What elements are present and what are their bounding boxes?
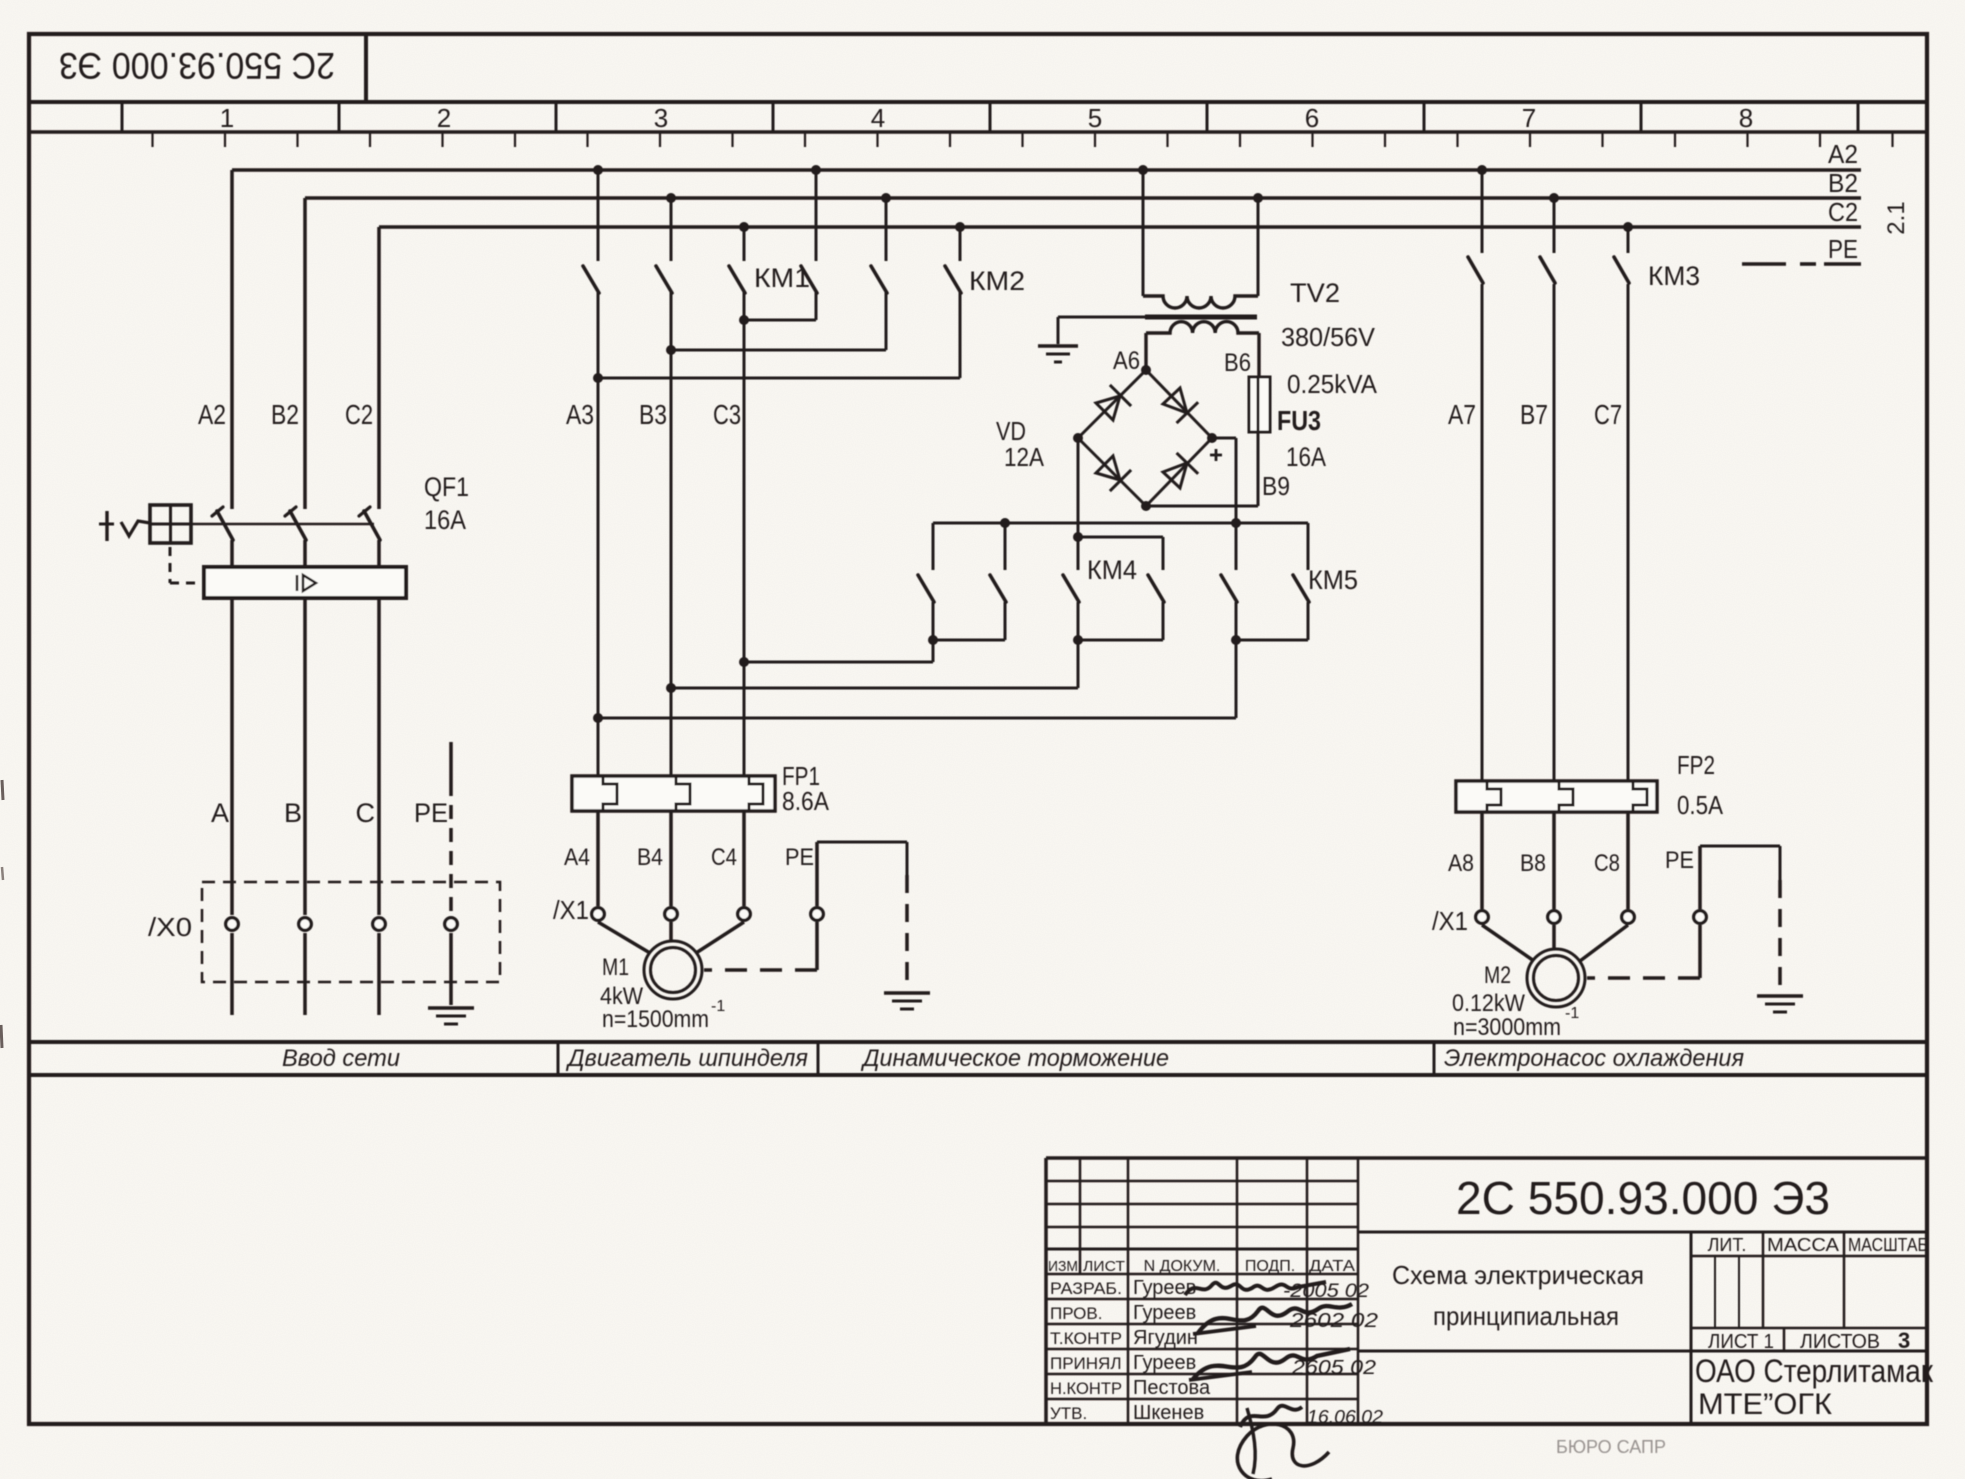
svg-text:А: А	[211, 798, 229, 828]
svg-text:3: 3	[1898, 1328, 1910, 1353]
svg-text:2С 550.93.000 Э3: 2С 550.93.000 Э3	[59, 45, 335, 86]
svg-text:ПРОВ.: ПРОВ.	[1050, 1304, 1102, 1323]
svg-text:1: 1	[220, 103, 234, 133]
svg-text:С7: С7	[1594, 399, 1622, 430]
svg-text:КМ2: КМ2	[969, 266, 1025, 296]
svg-text:В9: В9	[1262, 471, 1290, 501]
svg-text:МАССА: МАССА	[1767, 1235, 1839, 1255]
svg-text:ОАО Стерлитамак: ОАО Стерлитамак	[1695, 1353, 1934, 1389]
svg-text:В8: В8	[1520, 850, 1546, 877]
svg-text:КМ1: КМ1	[754, 263, 810, 293]
svg-text:А7: А7	[1448, 399, 1476, 430]
svg-text:Ввод сети: Ввод сети	[282, 1045, 400, 1072]
svg-text:Т.КОНТР: Т.КОНТР	[1050, 1329, 1122, 1348]
svg-text:Шкенев: Шкенев	[1133, 1402, 1204, 1424]
svg-text:6: 6	[1305, 103, 1319, 133]
svg-text:А2: А2	[198, 399, 226, 430]
svg-text:МТЕ”ОГК: МТЕ”ОГК	[1698, 1388, 1833, 1421]
svg-text:12А: 12А	[1004, 442, 1045, 472]
svg-text:8: 8	[1739, 103, 1753, 133]
svg-text:2С 550.93.000 Э3: 2С 550.93.000 Э3	[1456, 1172, 1830, 1224]
svg-text:С: С	[356, 798, 376, 828]
svg-text:ЛИСТ 1: ЛИСТ 1	[1708, 1331, 1774, 1353]
svg-text:/X1: /X1	[1432, 906, 1468, 936]
svg-text:ПОДП.: ПОДП.	[1245, 1258, 1295, 1275]
svg-text:2605 02: 2605 02	[1291, 1357, 1376, 1379]
svg-text:В6: В6	[1224, 349, 1251, 377]
svg-text:РЕ: РЕ	[1665, 847, 1694, 874]
svg-text:2.1: 2.1	[1883, 201, 1910, 234]
svg-text:В: В	[284, 798, 302, 828]
svg-text:0.25kVA: 0.25kVA	[1287, 369, 1378, 399]
svg-text:В3: В3	[639, 399, 667, 430]
svg-text:Гуреев: Гуреев	[1133, 1302, 1196, 1324]
svg-text:-2005 02: -2005 02	[1283, 1281, 1369, 1302]
svg-text:РЕ: РЕ	[785, 844, 814, 871]
svg-text:ТV2: ТV2	[1290, 278, 1340, 308]
svg-text:Электронасос охлаждения: Электронасос охлаждения	[1444, 1045, 1744, 1072]
svg-text:КМ5: КМ5	[1308, 565, 1358, 595]
svg-text:КМ3: КМ3	[1648, 261, 1700, 291]
svg-text:380/56V: 380/56V	[1281, 322, 1376, 352]
svg-text:ДАТА: ДАТА	[1309, 1258, 1355, 1275]
svg-text:С8: С8	[1594, 850, 1620, 877]
svg-text:принципиальная: принципиальная	[1433, 1301, 1619, 1331]
svg-text:Двигатель шпинделя: Двигатель шпинделя	[565, 1045, 808, 1072]
svg-text:0.5А: 0.5А	[1677, 790, 1724, 820]
svg-text:5: 5	[1088, 103, 1102, 133]
svg-text:А3: А3	[566, 399, 594, 430]
svg-text:МАСШТАБ: МАСШТАБ	[1848, 1235, 1928, 1255]
svg-text:/X0: /X0	[148, 912, 192, 942]
svg-text:РЕ: РЕ	[1828, 234, 1858, 264]
svg-text:А8: А8	[1448, 850, 1474, 877]
svg-text:/X1: /X1	[553, 895, 589, 925]
svg-text:3: 3	[654, 103, 668, 133]
svg-text:FP2: FP2	[1677, 750, 1715, 780]
svg-text:А2: А2	[1828, 139, 1858, 169]
svg-text:Н.КОНТР: Н.КОНТР	[1050, 1379, 1122, 1398]
svg-text:ИЗМ: ИЗМ	[1048, 1258, 1078, 1275]
svg-text:8.6А: 8.6А	[782, 786, 830, 816]
svg-text:РЕ: РЕ	[414, 798, 448, 828]
svg-text:0.12kW: 0.12kW	[1452, 990, 1525, 1017]
svg-text:-1: -1	[1565, 1005, 1579, 1022]
svg-text:Динамическое торможение: Динамическое торможение	[860, 1045, 1169, 1072]
svg-text:М2: М2	[1484, 962, 1511, 989]
svg-text:-1: -1	[711, 998, 725, 1015]
svg-text:ЛИСТОВ: ЛИСТОВ	[1800, 1331, 1880, 1353]
svg-text:С3: С3	[713, 399, 741, 430]
svg-text:4: 4	[871, 103, 885, 133]
svg-text:n=1500mm: n=1500mm	[602, 1006, 709, 1033]
svg-text:РАЗРАБ.: РАЗРАБ.	[1050, 1279, 1122, 1298]
svg-text:Ягудин: Ягудин	[1133, 1327, 1198, 1349]
svg-text:n=3000mm: n=3000mm	[1453, 1014, 1561, 1041]
svg-text:С4: С4	[711, 844, 737, 871]
svg-text:УТВ.: УТВ.	[1050, 1404, 1087, 1423]
svg-text:КМ4: КМ4	[1087, 555, 1137, 585]
svg-text:В7: В7	[1520, 399, 1548, 430]
svg-text:В2: В2	[1828, 168, 1858, 198]
svg-text:7: 7	[1522, 103, 1536, 133]
svg-text:Гуреев: Гуреев	[1133, 1352, 1196, 1374]
svg-text:БЮРО САПР: БЮРО САПР	[1556, 1437, 1666, 1457]
svg-text:С2: С2	[345, 399, 373, 430]
svg-text:2602 02: 2602 02	[1289, 1310, 1378, 1332]
svg-text:QF1: QF1	[424, 472, 469, 502]
svg-text:С2: С2	[1828, 197, 1858, 227]
svg-text:А6: А6	[1113, 347, 1140, 375]
svg-text:В4: В4	[637, 844, 663, 871]
svg-text:16А: 16А	[1286, 442, 1326, 472]
svg-text:2: 2	[437, 103, 451, 133]
svg-text:ПРИНЯЛ: ПРИНЯЛ	[1050, 1354, 1122, 1373]
svg-text:ЛИТ.: ЛИТ.	[1708, 1235, 1747, 1255]
svg-text:16.06 02: 16.06 02	[1307, 1407, 1383, 1427]
svg-text:N ДОКУМ.: N ДОКУМ.	[1144, 1258, 1221, 1275]
svg-text:16А: 16А	[424, 505, 466, 535]
svg-text:ЛИСТ: ЛИСТ	[1083, 1258, 1125, 1275]
svg-text:В2: В2	[271, 399, 299, 430]
svg-text:А4: А4	[564, 844, 590, 871]
svg-text:М1: М1	[602, 954, 629, 981]
svg-text:FU3: FU3	[1277, 405, 1321, 436]
svg-text:Схема электрическая: Схема электрическая	[1392, 1260, 1644, 1290]
